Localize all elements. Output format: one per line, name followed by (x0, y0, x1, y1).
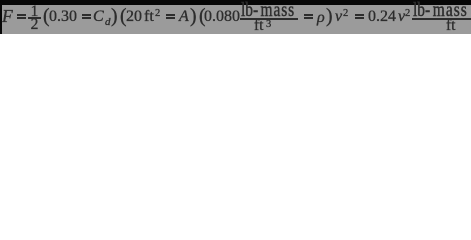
v2 (335, 9, 342, 25)
(0.30 = Cd) (43, 7, 50, 27)
= rho) (304, 14, 313, 16)
left black rule (0, 0, 2, 34)
fraction lb-mass / ft (413, 1, 425, 21)
fraction 1/2 (28, 4, 41, 20)
= (17, 14, 26, 16)
F (2, 8, 13, 26)
= 0.24v2 (355, 14, 364, 16)
(20 ft2 = A) (120, 7, 127, 27)
(0.080 (199, 7, 206, 27)
fraction lb-mass / ft3 (241, 1, 253, 21)
top black rule (0, 0, 471, 5)
